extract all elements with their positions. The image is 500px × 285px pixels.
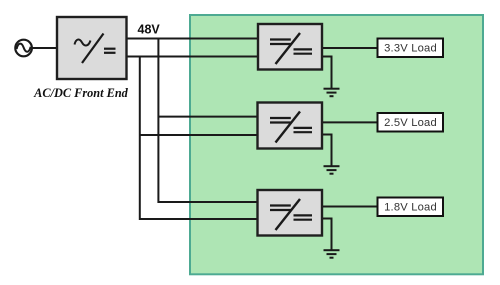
svg-text:AC/DC Front End: AC/DC Front End bbox=[33, 86, 128, 100]
svg-text:48V: 48V bbox=[138, 23, 161, 37]
svg-text:1.8V Load: 1.8V Load bbox=[384, 202, 437, 214]
svg-text:2.5V Load: 2.5V Load bbox=[384, 117, 437, 129]
svg-text:3.3V Load: 3.3V Load bbox=[384, 43, 437, 55]
